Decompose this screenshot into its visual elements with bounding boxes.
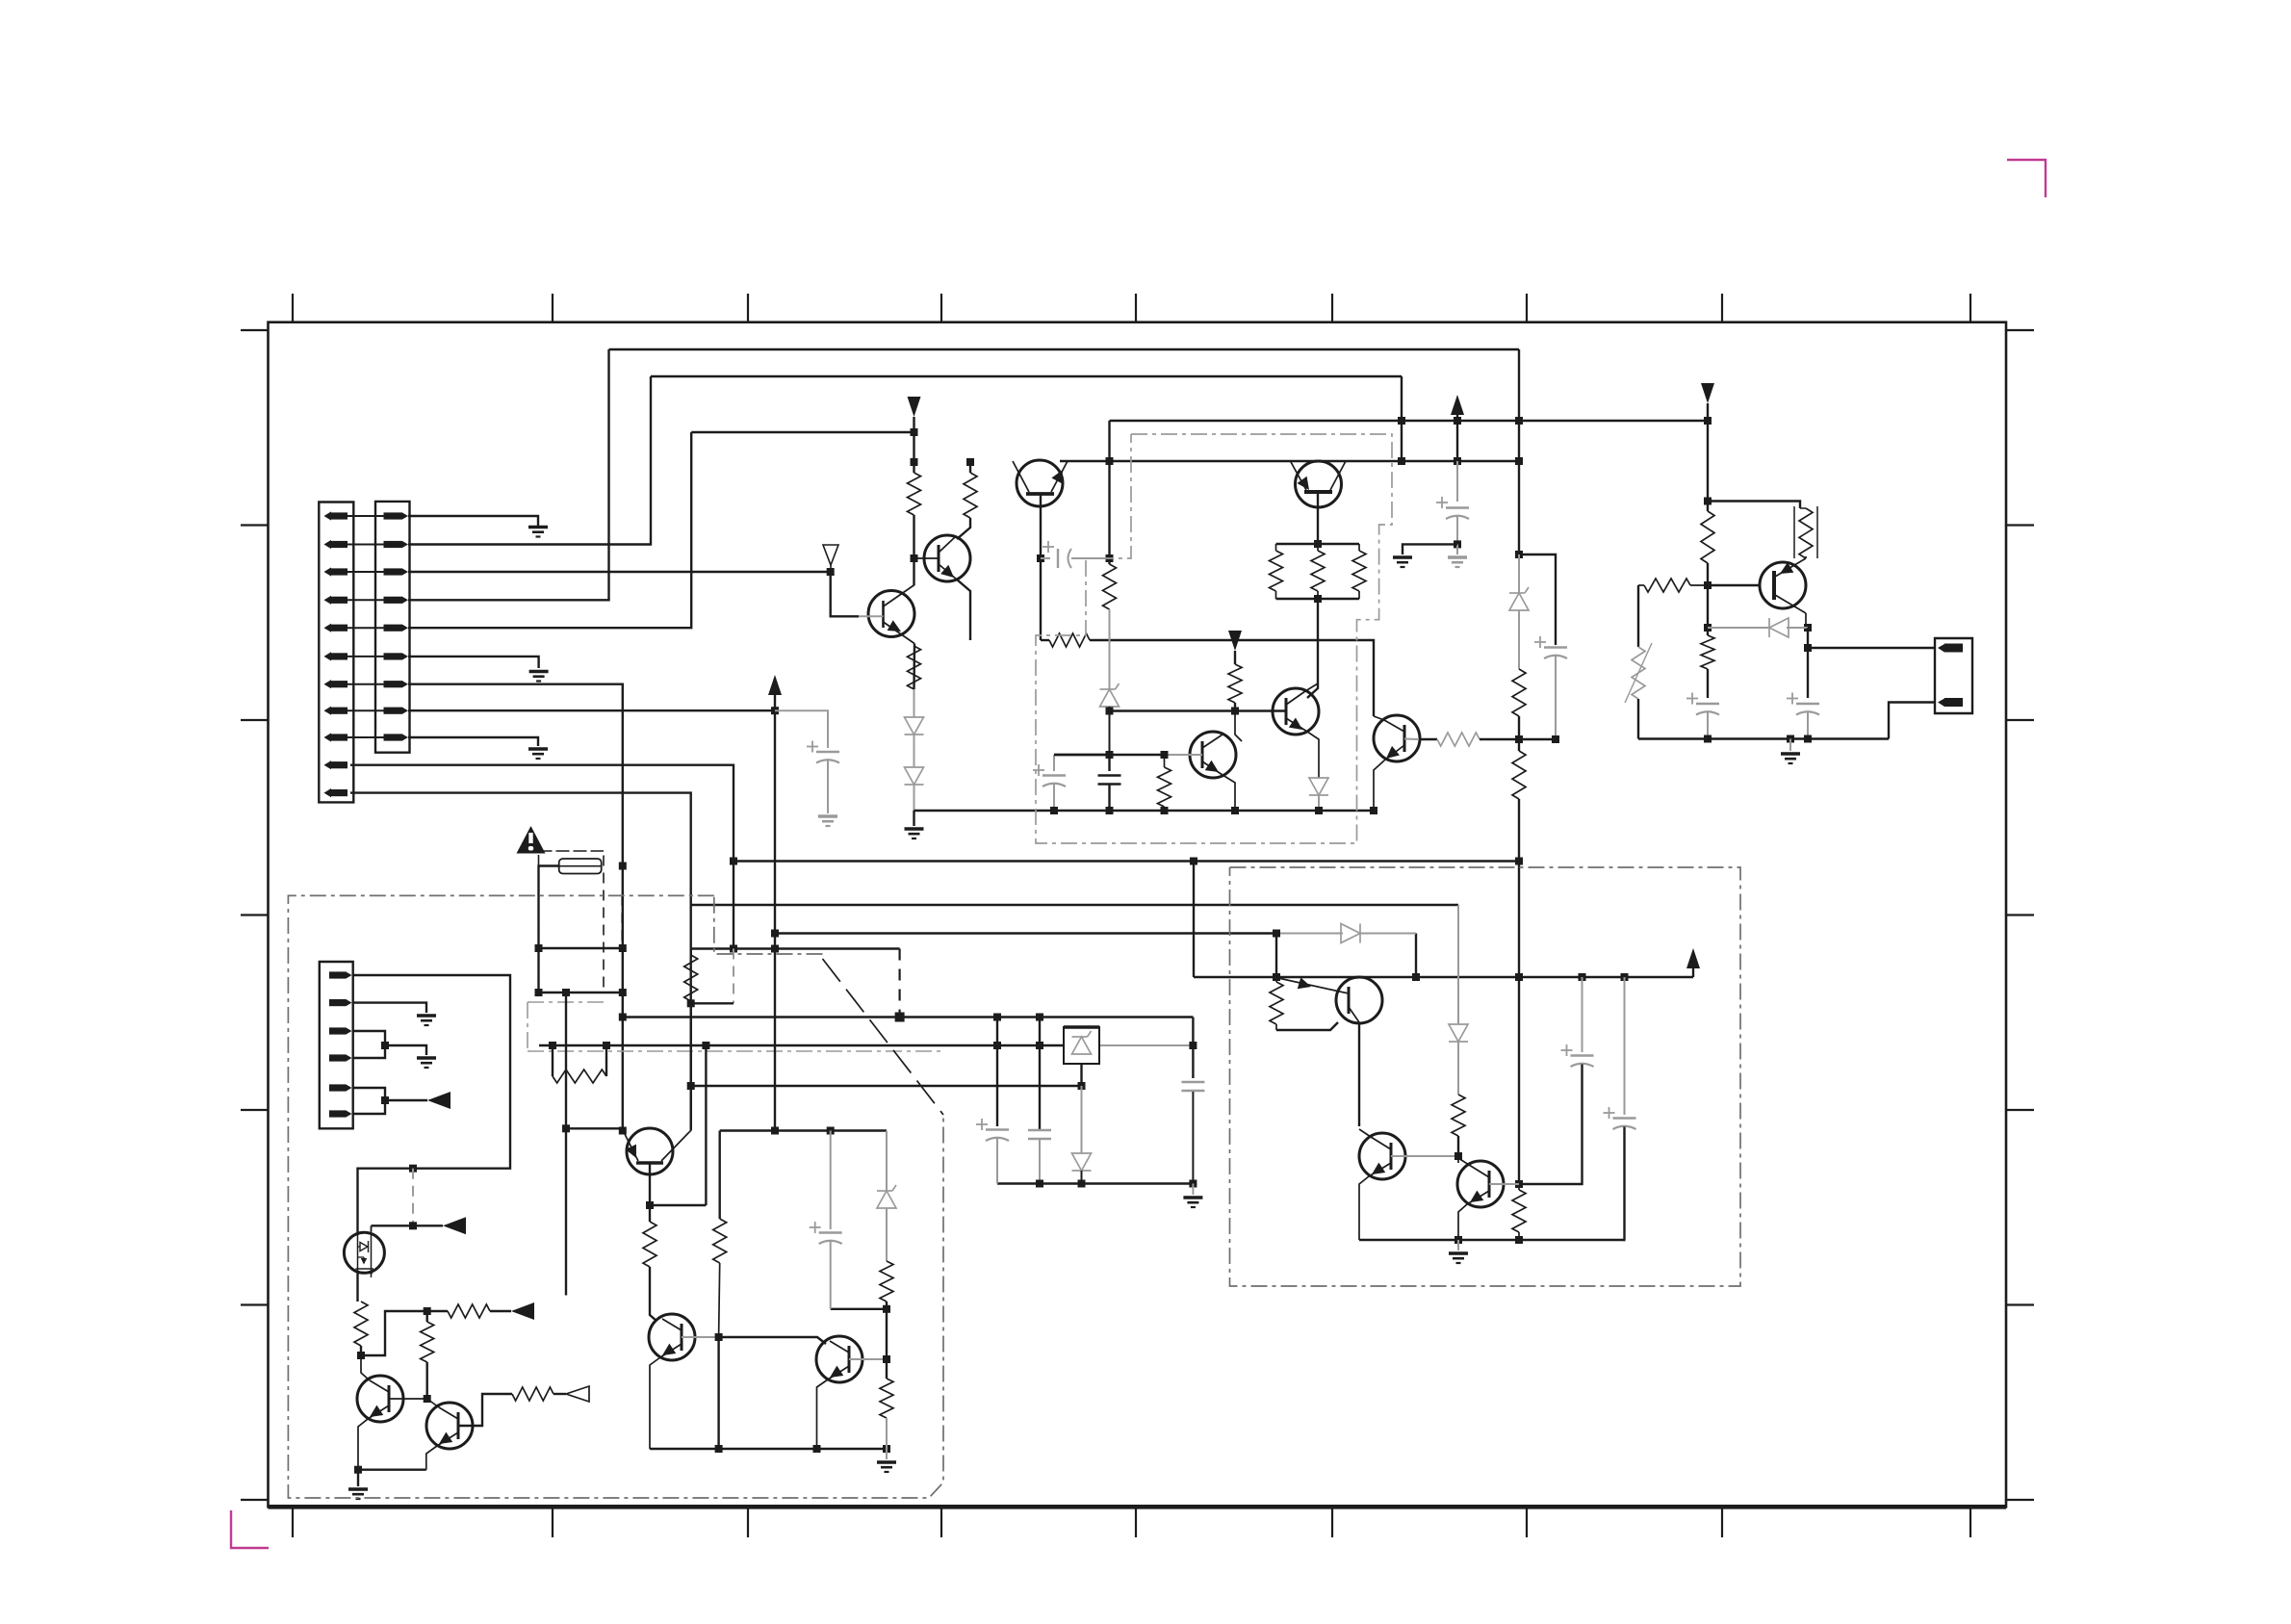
capacitor C-1514 <box>1436 497 1469 519</box>
wire L5 y1015 <box>1194 976 1693 978</box>
wire Q3 base <box>1165 754 1203 756</box>
wire bus2 riser down <box>1401 376 1403 461</box>
wire x718 lower <box>690 1003 692 1130</box>
wire x1578 to Q17 base <box>1518 977 1520 1184</box>
wire Q2b base <box>859 615 884 617</box>
resistor trio top bar <box>1276 543 1360 545</box>
resistor R-921b <box>880 1379 893 1418</box>
wire B1 bottom <box>1080 1064 1082 1086</box>
junction x805 y969 <box>771 930 779 938</box>
transistor Q2 <box>924 535 970 581</box>
wire x1514 to gnd node <box>1456 517 1458 545</box>
wire Q2 base lead <box>914 557 940 559</box>
wire x949 down <box>913 432 914 462</box>
junction x1878 y652 <box>1804 624 1812 632</box>
transistor Q1 <box>1013 460 1068 506</box>
wire Q11 base <box>849 1358 887 1360</box>
wire y665 line <box>1041 639 1049 641</box>
wire Q13 collector <box>427 1399 439 1407</box>
transistor Q17 <box>1457 1161 1504 1207</box>
wire x921 top <box>886 1131 888 1192</box>
junction x762 y985 <box>730 945 737 953</box>
capacitor C-862 <box>810 1222 842 1244</box>
junction rail x1095 <box>1050 807 1058 814</box>
wire Q3 emitter <box>1223 775 1235 811</box>
wire Q15 emitter col <box>1358 1023 1360 1126</box>
junction x646 y985 <box>619 944 627 952</box>
resistor R-921a <box>880 1261 893 1302</box>
wire rail to ground <box>913 811 914 826</box>
wire cap1643 col <box>1582 977 1583 1052</box>
wire row6 to ground <box>408 657 539 668</box>
chain box D2 <box>528 1002 605 1051</box>
junction x1239 y1086 <box>1189 1042 1197 1049</box>
ground G6 <box>417 1058 436 1068</box>
wire Q17 collector <box>1458 1158 1469 1165</box>
junction x1152 y738 <box>1106 708 1114 715</box>
wire diode line <box>1708 627 1808 629</box>
junction rail1229 x1239 <box>1189 1180 1197 1188</box>
resistor R-b <box>964 473 977 518</box>
optocoupler PC1 <box>344 1226 384 1277</box>
wire Q9 emitter diag <box>689 1131 691 1133</box>
junction rail767 x1860 <box>1787 735 1794 743</box>
junction x1515 y1201 <box>1454 1152 1462 1160</box>
wire Q7 emitter <box>1805 613 1807 628</box>
diode D-a <box>905 717 924 735</box>
wire x949 resistor stub <box>913 462 914 473</box>
bus line 1 <box>609 348 1520 350</box>
junction Q10 base node <box>715 1333 723 1341</box>
resistor R-t1 <box>1270 544 1283 599</box>
wire gnd stub 1239 <box>1192 1184 1194 1196</box>
wire L2 drop x1515 <box>1457 905 1459 1024</box>
transistor Q16 <box>1359 1133 1405 1179</box>
wire y768 base line <box>1419 738 1437 740</box>
power arrow A3 down <box>1228 631 1242 664</box>
dashed drop x934 <box>898 949 900 1018</box>
wire row9 to ground <box>408 737 538 746</box>
resistor R-mid h <box>1638 579 1708 592</box>
power arrow A6 up <box>768 675 782 710</box>
wire x1152 y784-806 <box>1108 755 1110 771</box>
wire zener to R <box>1518 610 1520 669</box>
connector CN2 housing <box>375 502 410 753</box>
connector CN1 pins <box>324 511 348 797</box>
wire Q13 base <box>458 1394 512 1426</box>
wire L1 y894 <box>734 860 1519 862</box>
junction y480 x1008 <box>966 458 974 466</box>
wire cap1095 to rail <box>1053 785 1055 812</box>
wire opto base line <box>372 1224 444 1226</box>
junction x588 y1172 <box>562 1124 570 1132</box>
junction rail1505 x848 <box>813 1445 821 1453</box>
dashed segment x646 <box>621 895 623 943</box>
wire D1370 to rail <box>1318 795 1320 811</box>
ground G11 <box>905 829 924 838</box>
wire L6 end drop <box>1192 1018 1194 1079</box>
wire Q9 chain down <box>649 1205 651 1222</box>
junction opto dash tap <box>409 1165 417 1173</box>
ground GA x1457 <box>1393 557 1412 567</box>
wire x1080 col <box>1039 1018 1041 1130</box>
fuse F1 <box>559 859 602 874</box>
junction Q9 collector node <box>619 1127 627 1135</box>
junction x1152 y784 <box>1106 751 1114 759</box>
wire R-b stub <box>969 462 971 473</box>
junction x588 y1031 <box>562 989 570 996</box>
diode D-loop <box>1341 924 1360 943</box>
wire x733 drop <box>705 1045 707 1205</box>
connector CN3 pin1 <box>1938 644 1963 653</box>
diagonal dashed link <box>823 959 944 1115</box>
corner mark top-right <box>2007 160 2046 197</box>
connector CN4 housing <box>320 962 353 1128</box>
capacitor C-1036 <box>976 1119 1009 1141</box>
wire L9 y1174 <box>720 1129 887 1131</box>
wire R1152 to zener <box>1109 609 1111 689</box>
wire D1515 to R <box>1457 1042 1459 1095</box>
wire Q2 base node down <box>913 558 914 585</box>
wire x1578 gray to zener <box>1518 554 1520 593</box>
wire x718 pieces <box>690 949 692 1004</box>
junction Q9 base node <box>646 1201 654 1209</box>
junction rail1229 x1080 <box>1036 1180 1043 1188</box>
resistor R-1774b <box>1701 635 1714 669</box>
wire varistor to rail <box>1637 699 1639 739</box>
wire to open arrow <box>553 1393 566 1395</box>
wire to cap1774 <box>1707 669 1709 698</box>
wire cap1774 to rail <box>1707 712 1709 739</box>
wire link y1031 <box>539 992 623 993</box>
junction x805 y985 <box>771 945 779 953</box>
capacitor C-link <box>1043 541 1071 568</box>
border tick marks top/bottom <box>293 294 1970 1537</box>
wire c1239 to rail <box>1192 1092 1194 1184</box>
junction x1578 y437 <box>1515 417 1523 425</box>
wire x805 column <box>774 710 776 1130</box>
rail y1288 <box>1359 1239 1626 1241</box>
wire to y768 <box>1518 716 1520 740</box>
zener D-1578 <box>1509 587 1529 610</box>
connector CN3 pin2 <box>1938 698 1963 707</box>
wire c1080 to rail <box>1039 1140 1041 1184</box>
wire x1578 to L1 <box>1518 799 1520 862</box>
junction x646 y1056 <box>619 1014 627 1021</box>
wire to cap node <box>886 1302 888 1309</box>
wire R to x1578 <box>1480 738 1556 740</box>
transistor Q7 <box>1760 558 1806 613</box>
junction L1 x762 <box>730 858 737 865</box>
wire pin2 link <box>1889 703 1935 739</box>
wire x588 link <box>566 1127 622 1129</box>
chain box B <box>1230 867 1741 1286</box>
transistor Q9 <box>624 1128 689 1174</box>
transistor Q4 <box>1273 688 1319 735</box>
diode D-1515 <box>1449 1024 1468 1042</box>
wire y437 top link <box>1110 420 1709 422</box>
junction x559 y1031 <box>535 989 543 996</box>
wire Q11 emitter <box>817 1379 829 1449</box>
junction rail1505 x921 <box>883 1445 890 1453</box>
connector CN4 pins <box>329 971 352 1118</box>
wire p56 arrow link <box>385 1099 427 1101</box>
wire x1774 mid <box>1707 563 1709 585</box>
junction x375 y1408 <box>357 1352 365 1359</box>
wire row7 fuse feed <box>408 684 623 866</box>
wire cap862 down <box>830 1242 832 1309</box>
junction x1578 L1 <box>1515 858 1523 865</box>
bus line 2 <box>651 375 1402 377</box>
testpoint marker row3 <box>823 545 838 572</box>
wire Q10 emitter <box>650 1357 660 1449</box>
wire x1578 main column <box>1518 349 1520 554</box>
net arrow A-2 open <box>566 1386 589 1402</box>
ground G1 <box>528 528 548 537</box>
wire opto stub <box>371 1225 373 1231</box>
connector CN3 housing <box>1935 638 1972 713</box>
wire R2 to rail <box>886 1418 888 1449</box>
wire x746 column <box>719 1131 721 1220</box>
junction x443 y1362 <box>424 1307 431 1315</box>
junction L7 x574 <box>549 1042 556 1049</box>
wire arrow line <box>427 1310 448 1312</box>
resistor R-665 <box>1049 633 1090 647</box>
junction x717 y1042 <box>687 999 695 1007</box>
junction row8 <box>771 707 779 714</box>
wire L7 y1086 <box>539 1044 1193 1046</box>
wire row8 <box>408 709 775 711</box>
wire R1515 to node <box>1457 1136 1459 1156</box>
zener D-1152 <box>1100 683 1120 707</box>
chain box C <box>288 895 943 1498</box>
wire cap1687 col <box>1624 977 1626 1115</box>
dashed gray drop x762 <box>733 949 734 1004</box>
junction x1456 y479 <box>1398 457 1405 465</box>
wire gndA link <box>1403 544 1457 554</box>
junction L6 x1080 <box>1036 1014 1043 1021</box>
capacitor C-1152 <box>1098 776 1121 785</box>
wire z921 to R <box>886 1208 888 1261</box>
junction L5 x1471 <box>1412 973 1420 981</box>
connector CN1-CN2 row links <box>348 516 384 737</box>
resistor R-1326 <box>1270 977 1283 1030</box>
junction trio top <box>1314 540 1322 548</box>
border tick marks left/right <box>241 330 2034 1500</box>
wire varistor col <box>1637 585 1639 647</box>
wire diode loop <box>1276 934 1416 978</box>
wire Q12 gnd stub <box>357 1470 359 1486</box>
wire x733 to Q9 base <box>650 1204 706 1206</box>
junction Q3 base node <box>1161 751 1169 759</box>
wire Q16 base <box>1391 1155 1458 1157</box>
junction rail x1152 <box>1106 807 1114 814</box>
wire y784 line <box>1054 754 1165 756</box>
diode D-1123 <box>1072 1153 1092 1171</box>
junction x934 y1056 <box>895 1013 905 1022</box>
junction x1578 y1230 <box>1515 1180 1523 1188</box>
junction x1578 y768 <box>1515 735 1523 743</box>
capacitor C-1878 <box>1787 693 1819 715</box>
wire R675 to Q10 <box>650 1267 656 1321</box>
wire Q17 emitter <box>1458 1204 1467 1240</box>
power arrow A4 up <box>1686 948 1700 977</box>
capacitor C-1239 <box>1181 1082 1204 1091</box>
junction rail1229 x1123 <box>1078 1180 1086 1188</box>
wire opto R to node <box>360 1346 362 1355</box>
resistor R-a <box>908 473 921 515</box>
junction Q12 base node <box>424 1395 431 1403</box>
wire x1578 to railB <box>1518 1232 1520 1240</box>
junction x1774 y437 <box>1704 417 1712 425</box>
net arrow A-3 <box>427 1092 450 1109</box>
wire x1774 down <box>1707 421 1709 511</box>
transistor Q2b <box>868 585 914 644</box>
junction railB x1578 <box>1515 1236 1523 1244</box>
capacitor C-1643 <box>1561 1044 1594 1067</box>
junction x805 y1174 <box>771 1127 779 1135</box>
wire pin1 link <box>1808 647 1935 649</box>
warning triangle <box>517 826 546 854</box>
wire Q13 emitter <box>426 1446 437 1470</box>
capacitor C-1095 <box>1033 764 1066 786</box>
wire Q12 feed <box>361 1311 427 1355</box>
wire x1240 feed <box>1193 862 1195 978</box>
wire L3 y969 <box>775 932 1276 934</box>
junction x1578 y576 <box>1515 551 1523 558</box>
junction x1514 y479 <box>1454 457 1461 465</box>
wire diode link <box>914 735 915 767</box>
connector CN1 housing <box>319 503 353 803</box>
resistor R-1209 <box>1158 755 1171 811</box>
wire opto bottom <box>356 1273 358 1302</box>
junction fuse right <box>619 863 627 870</box>
transistor Q13 <box>426 1403 473 1449</box>
wire x746 to rail <box>717 1337 719 1449</box>
net arrow A-opto <box>443 1217 466 1234</box>
capacitor C-1774 <box>1686 693 1719 715</box>
wire Q7 base line <box>1708 584 1761 586</box>
resistor R-opto <box>354 1302 368 1346</box>
resistor R-t3 <box>1352 544 1366 599</box>
wire R-c to diodes <box>914 689 915 717</box>
wire x1152 from y437 <box>1108 421 1110 461</box>
wire y479 emitter line <box>1060 460 1519 462</box>
wire R-a to Q2 base <box>913 515 914 558</box>
wire special R feed <box>1708 502 1800 509</box>
wire x1774 low <box>1707 585 1709 635</box>
wire to rail <box>914 785 915 811</box>
wire W7 column lower <box>622 866 624 1131</box>
junction x1514 y437 <box>1454 417 1461 425</box>
ground G-tr <box>1781 754 1800 763</box>
wire Q9 collector diag <box>623 1131 624 1133</box>
wire row3 <box>408 572 859 616</box>
dashed box D1 fuse <box>539 851 605 992</box>
junction rail1505 x746 <box>715 1445 723 1453</box>
junction L8 x718 <box>687 1082 695 1090</box>
wire Q12 collector <box>361 1355 370 1380</box>
wire Q8 emitter <box>1374 760 1384 811</box>
resistor R-1578a <box>1512 669 1526 716</box>
resistor R-1515 <box>1452 1095 1465 1136</box>
junction Q11 base node <box>883 1355 890 1363</box>
resistor R-special <box>1794 506 1817 558</box>
junction rail842 x1370 <box>1315 807 1323 814</box>
transistor Q12 <box>357 1376 403 1422</box>
wire zener to junction <box>1109 707 1111 755</box>
wire link y1042 <box>691 1002 734 1004</box>
wire CN4 p5-p6 <box>353 1088 385 1114</box>
junction L1 x1240 <box>1190 858 1197 865</box>
transistor Q15 <box>1278 977 1382 1023</box>
wire to net arrow <box>490 1310 511 1312</box>
connector CN2 pins <box>384 512 409 741</box>
wire cap link <box>1041 557 1110 559</box>
wire row5 to bus3 riser <box>408 432 691 628</box>
wire cap1616 down <box>1555 657 1557 740</box>
wire Q16 emitter <box>1359 1176 1369 1240</box>
wire y665 to Q8 <box>1090 640 1374 716</box>
junction x1578 y1015 <box>1515 973 1523 981</box>
wire p34 gnd link <box>385 1045 426 1055</box>
wire pin1 net <box>353 975 510 1235</box>
wire trio to Q4 collector <box>1307 599 1318 698</box>
capacitor C-1080 <box>1028 1130 1051 1139</box>
junction bus3 end <box>911 428 918 436</box>
border frame <box>269 322 2007 1508</box>
junction L7 x733 <box>702 1042 709 1049</box>
junction rail767 x1878 <box>1804 735 1812 743</box>
diode D-1370 <box>1309 778 1328 795</box>
resistor trio bottom bar <box>1276 598 1360 600</box>
ground G4 <box>818 816 837 826</box>
ground G5 <box>417 1016 436 1025</box>
wire L2 y940 <box>691 904 1458 906</box>
wire c1036 to rail <box>996 1139 998 1184</box>
junction x429 y1273 <box>409 1222 417 1229</box>
wire x1578 down2 <box>1518 739 1520 751</box>
wire gndB stub <box>1457 1240 1459 1250</box>
wire link y985 <box>539 947 623 949</box>
wire x1515 to Q17 <box>1457 1156 1459 1163</box>
wire pi stubs <box>553 1045 606 1076</box>
resistor R-ar2 <box>512 1387 553 1401</box>
wire row1 to ground <box>408 516 538 526</box>
net arrow A-1 <box>511 1302 534 1320</box>
power arrow A1 down <box>908 397 921 432</box>
wire R1283 to base node <box>1234 703 1236 711</box>
junction x1456 y437 <box>1398 417 1405 425</box>
rail y1229 <box>997 1182 1193 1184</box>
resistor R-c <box>908 646 921 689</box>
junction x1616 y768 <box>1552 735 1559 743</box>
junction L9 x862 <box>827 1127 835 1135</box>
resistor R-1774a <box>1701 511 1714 563</box>
junction x1774 y608 <box>1704 581 1712 589</box>
junction x921 y1359 <box>883 1305 890 1313</box>
junction L5 x1326 <box>1273 973 1280 981</box>
junction rail842 x1283 <box>1231 807 1239 814</box>
power arrow A2 down <box>1701 383 1714 421</box>
diode D-q7 <box>1769 618 1789 637</box>
wire x1878 down <box>1807 628 1809 698</box>
junction L7 x630 <box>603 1042 610 1049</box>
wire x1152 to rail <box>1108 785 1110 812</box>
diode D-b <box>905 767 924 785</box>
transistor Q3 <box>1190 732 1236 778</box>
wire cap860 to ground <box>827 760 829 813</box>
